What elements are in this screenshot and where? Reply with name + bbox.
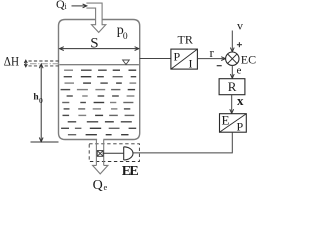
svg-text:e: e bbox=[104, 182, 108, 192]
line R to E/P bbox=[231, 95, 233, 114]
converter E/P box bbox=[220, 114, 247, 133]
svg-text:e: e bbox=[237, 65, 242, 77]
comparator EC circle bbox=[226, 52, 239, 65]
minus sign bbox=[217, 65, 222, 67]
valve dashed enclosure EE bbox=[89, 144, 139, 162]
svg-text:P: P bbox=[174, 50, 181, 64]
S dimension arrow bbox=[60, 48, 139, 50]
error line e bbox=[231, 65, 233, 78]
svg-text:v: v bbox=[237, 19, 243, 33]
bottom extension line bbox=[31, 141, 59, 143]
setpoint line v bbox=[231, 31, 233, 52]
tap line tank to transmitter bbox=[140, 58, 171, 60]
svg-text:0: 0 bbox=[123, 32, 128, 42]
svg-text:TR: TR bbox=[178, 33, 193, 47]
outlet pipe bbox=[96, 140, 103, 166]
svg-text:x: x bbox=[237, 93, 244, 108]
dH mini double arrow bbox=[25, 61, 27, 67]
transmitter P/I box bbox=[171, 49, 198, 69]
svg-text:I: I bbox=[189, 57, 193, 71]
h0 dimension line bbox=[40, 64, 42, 141]
svg-text:0: 0 bbox=[39, 96, 43, 105]
arrow into inlet pipe bbox=[72, 5, 87, 7]
svg-text:P: P bbox=[237, 120, 244, 134]
outlet hollow arrow bbox=[93, 165, 108, 174]
liquid dashes bbox=[64, 69, 73, 71]
regulator R box bbox=[219, 79, 245, 95]
svg-text:EC: EC bbox=[241, 53, 256, 67]
svg-text:EE: EE bbox=[122, 164, 139, 179]
svg-text:r: r bbox=[210, 45, 215, 60]
lower level dashed line bbox=[29, 65, 59, 67]
svg-text:ΔH: ΔH bbox=[4, 55, 19, 69]
level mark triangle bbox=[123, 60, 130, 65]
svg-text:S: S bbox=[90, 36, 98, 52]
plus sign bbox=[237, 44, 242, 46]
inlet pipe Q_i bbox=[86, 3, 105, 32]
svg-text:R: R bbox=[228, 79, 237, 94]
liquid surface line bbox=[59, 64, 138, 66]
svg-text:Q: Q bbox=[93, 178, 103, 193]
svg-text:E: E bbox=[222, 113, 230, 128]
valve body X bbox=[97, 151, 103, 157]
actuator D shape bbox=[124, 147, 133, 160]
output line E/P to valve actuator bbox=[133, 132, 232, 153]
nominal level dash-dot line bbox=[30, 63, 61, 65]
upper level dashed line bbox=[29, 60, 59, 62]
valve stem line to actuator bbox=[103, 152, 123, 154]
line transmitter to comparator bbox=[197, 58, 225, 60]
tank bbox=[59, 20, 140, 140]
